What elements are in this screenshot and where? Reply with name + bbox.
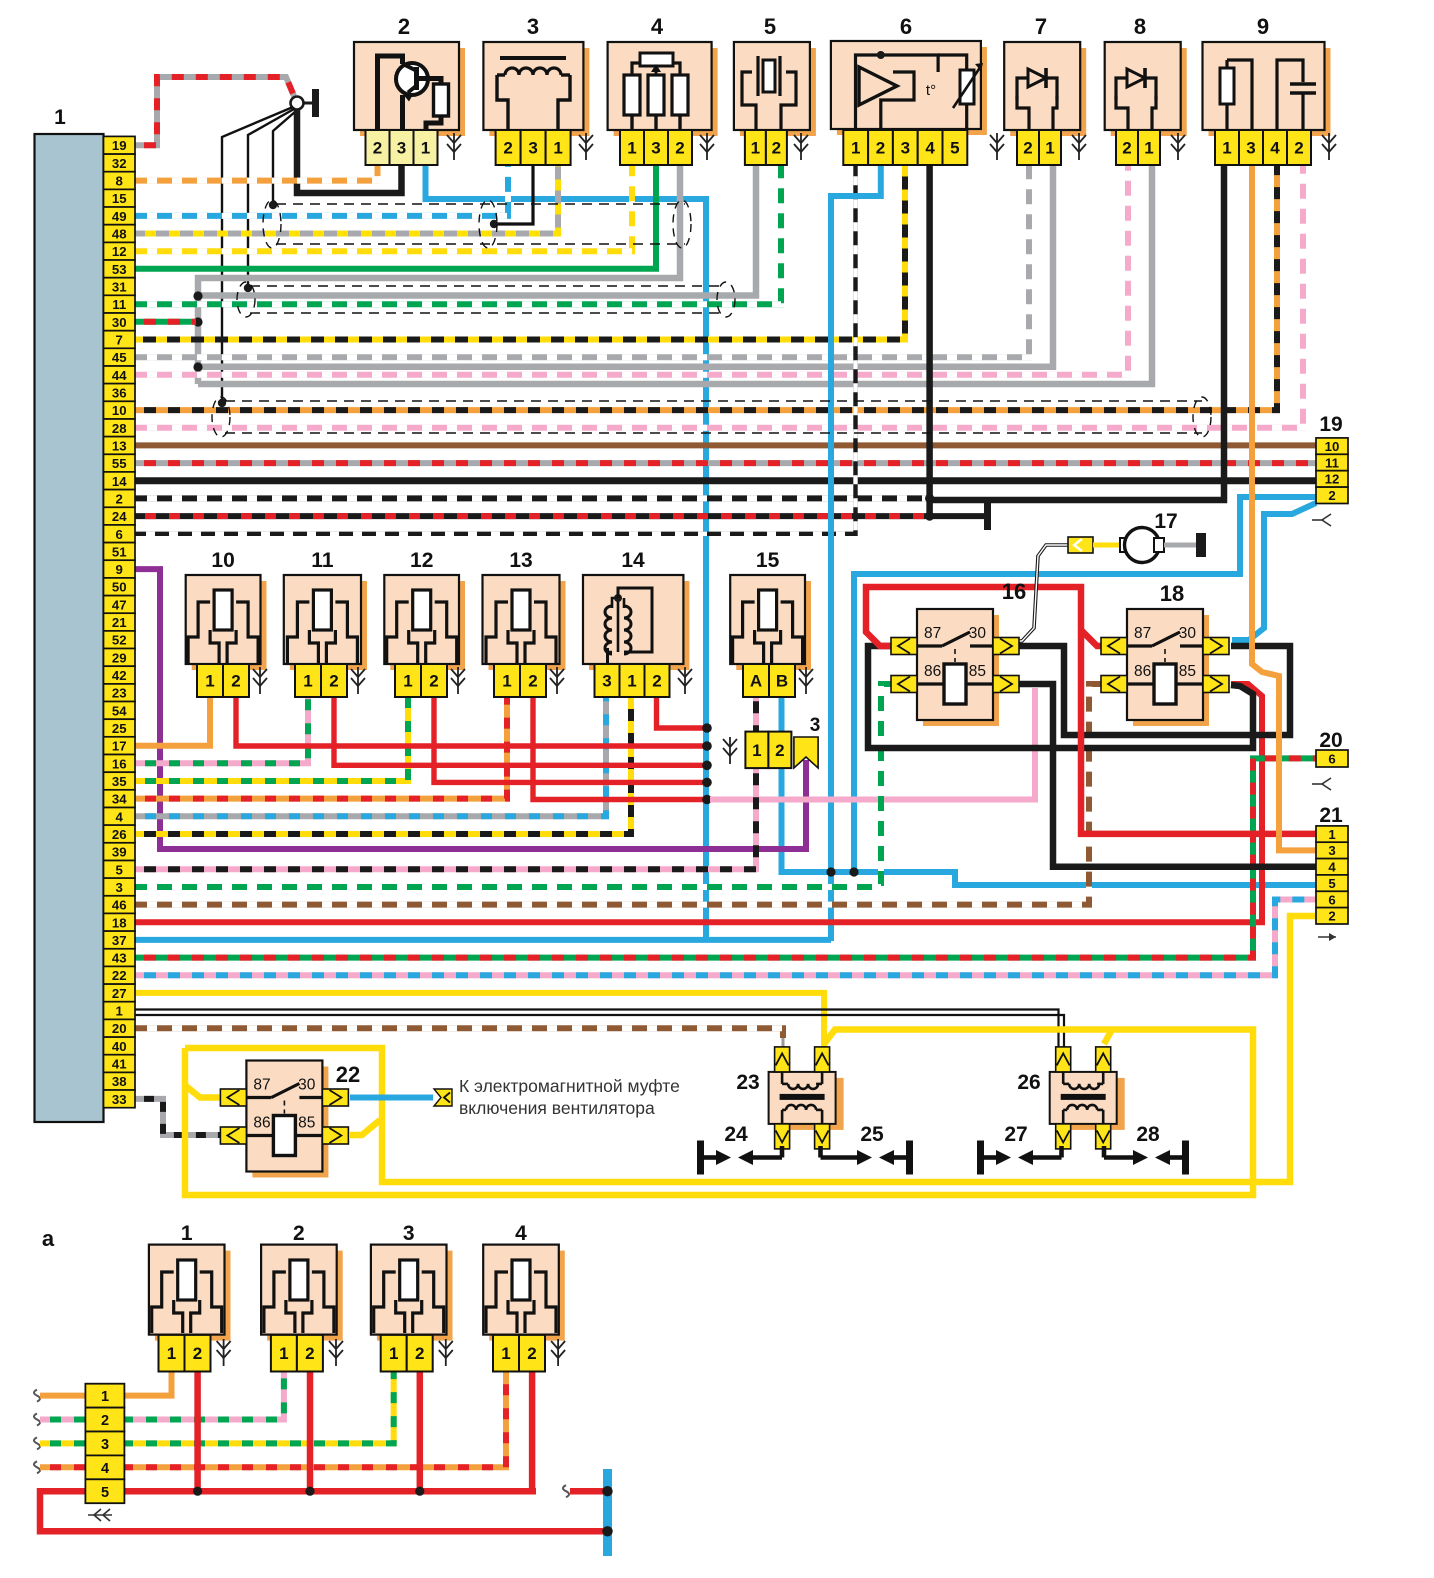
svg-text:44: 44	[112, 368, 127, 383]
label 12	[410, 549, 433, 572]
ground at component 8	[1171, 133, 1185, 160]
component 15 injector	[730, 575, 811, 670]
svg-text:19: 19	[1319, 413, 1342, 436]
ground at component 15	[799, 667, 813, 694]
svg-text:6: 6	[1328, 892, 1335, 907]
svg-text:6: 6	[116, 527, 123, 542]
svg-text:14: 14	[112, 474, 127, 489]
node ignition splice	[291, 89, 320, 117]
svg-text:9: 9	[1257, 14, 1269, 39]
svg-text:4: 4	[116, 809, 124, 824]
label 11	[311, 549, 334, 572]
svg-text:40: 40	[112, 1039, 127, 1054]
wire pin 1 to component 26 (white pair)	[135, 1010, 1064, 1051]
svg-text:6: 6	[1328, 752, 1335, 767]
svg-text:1: 1	[1144, 139, 1153, 158]
svg-text:2: 2	[1122, 139, 1131, 158]
ground at component 2	[447, 133, 461, 160]
svg-text:1: 1	[403, 672, 412, 691]
svg-text:1: 1	[553, 139, 562, 158]
svg-text:12: 12	[410, 549, 433, 572]
svg-text:1: 1	[205, 672, 214, 691]
svg-text:2: 2	[373, 139, 382, 158]
wire component 15 pin B riser (light blue)	[779, 697, 785, 731]
ground at component 14	[678, 667, 692, 694]
node body harness bus (light blue bar)	[602, 1469, 612, 1556]
component 7 immobiliser diode	[1004, 42, 1086, 136]
label 3	[527, 14, 539, 39]
wire shield drain A (thin black)	[218, 107, 293, 407]
svg-text:30: 30	[298, 1077, 316, 1094]
injector 3	[371, 1245, 453, 1341]
wire relay red supply net	[866, 587, 1316, 834]
ground 25	[821, 1123, 914, 1175]
component 2 ignition module	[354, 42, 465, 136]
svg-text:18: 18	[112, 915, 127, 930]
label 10	[211, 549, 234, 572]
component 13 injector	[483, 575, 566, 670]
injector 4 pins 1 2	[493, 1335, 545, 1372]
svg-text:17: 17	[112, 739, 127, 754]
connector 15a pins 1 2	[745, 732, 791, 769]
component 6 instrument module	[831, 41, 987, 135]
svg-text:3: 3	[901, 139, 910, 158]
svg-text:25: 25	[112, 721, 127, 736]
ground at component 5	[794, 133, 808, 160]
svg-text:16: 16	[112, 756, 127, 771]
wire pin 37 (light blue)	[135, 937, 831, 943]
svg-text:20: 20	[112, 1021, 127, 1036]
injector 1 pins 1 2	[159, 1335, 211, 1372]
ground at component 3	[579, 133, 593, 160]
svg-text:15: 15	[112, 191, 127, 206]
component 4 pins 1 3 2	[620, 130, 692, 165]
svg-text:5: 5	[950, 139, 959, 158]
injector 2 pins 1 2	[271, 1335, 323, 1372]
component 11 injector	[284, 575, 367, 670]
ground 28	[1104, 1123, 1189, 1175]
svg-text:4: 4	[1328, 860, 1336, 875]
component 4 throttle position sensor	[608, 42, 718, 136]
component 5 pins 1 2	[745, 130, 787, 165]
label 17	[1154, 510, 1177, 533]
svg-text:3: 3	[528, 139, 537, 158]
svg-text:32: 32	[112, 156, 127, 171]
component 14 pins 3 1 2	[595, 664, 670, 697]
svg-text:2: 2	[876, 139, 885, 158]
svg-text:4: 4	[925, 139, 935, 158]
component 23 ignition coil 1-4	[736, 1047, 843, 1149]
svg-text:87: 87	[1134, 625, 1151, 642]
svg-text:2: 2	[231, 672, 240, 691]
svg-text:6: 6	[900, 14, 912, 39]
svg-text:22: 22	[112, 968, 127, 983]
ECU pin numbers	[104, 136, 136, 1107]
svg-text:3: 3	[1328, 843, 1335, 858]
ground 24	[697, 1123, 782, 1175]
svg-text:30: 30	[969, 625, 987, 642]
label 1	[181, 1222, 193, 1245]
wire injector common supply (red)	[40, 1372, 604, 1531]
wire pin 44 to component 8 pin 2 (pink/white)	[135, 165, 1128, 375]
svg-text:3: 3	[810, 715, 821, 736]
label 7	[1035, 14, 1047, 39]
wire pin 55 to connector 19 pin 11 (gray/red)	[135, 460, 1316, 466]
ground at component 10	[253, 667, 267, 694]
connector 15a pin 3 flag	[794, 715, 820, 768]
svg-text:85: 85	[1179, 663, 1196, 680]
svg-text:14: 14	[621, 549, 645, 572]
svg-text:1: 1	[752, 741, 761, 760]
wire pin 4 to component 14 pin 3 (gray/light blue)	[135, 697, 606, 816]
wire pin 2 (black/white) and link to component 9 pin 1	[135, 165, 1224, 500]
svg-text:30: 30	[1179, 625, 1197, 642]
svg-text:36: 36	[112, 386, 127, 401]
component 2 pins 2 3 1	[366, 130, 438, 165]
svg-text:2: 2	[1328, 909, 1335, 924]
ground at connector 15a	[723, 737, 737, 764]
component 11 pins	[295, 664, 347, 697]
svg-text:29: 29	[112, 650, 127, 665]
svg-text:5: 5	[1328, 876, 1335, 891]
wire fuel connector row 3 to injector 3 (yellow/green)	[34, 1372, 394, 1449]
wire pin 45 to component 7 pin 2 (gray/white)	[135, 165, 1029, 357]
svg-text:3: 3	[116, 880, 123, 895]
wire pin 28 to component 9 pin 2 (pink/white)	[135, 165, 1303, 428]
svg-text:2: 2	[528, 672, 537, 691]
wire pin 18 to relay 18 pin 85 (red)	[135, 684, 1262, 922]
svg-text:21: 21	[1319, 804, 1343, 827]
fuel harness connector	[85, 1384, 124, 1521]
injector 2	[261, 1245, 343, 1341]
svg-text:1: 1	[1328, 827, 1335, 842]
svg-text:10: 10	[112, 403, 127, 418]
component 13 pins	[494, 664, 546, 697]
wire shield drain C (thin black)	[269, 111, 296, 209]
component 8 pins 2 1	[1116, 130, 1160, 165]
svg-text:1: 1	[851, 139, 860, 158]
svg-text:7: 7	[1035, 14, 1047, 39]
wire pin 5 to component 15 pin A (pink/black)	[135, 697, 756, 869]
relay 16 fuel pump relay	[891, 579, 1026, 726]
svg-text:9: 9	[116, 562, 123, 577]
svg-text:К электромагнитной муфте: К электромагнитной муфте	[459, 1076, 680, 1096]
svg-text:3: 3	[651, 139, 660, 158]
wire component 6 pin 2 / pin 37 tach net (light blue)	[831, 165, 881, 941]
connector 19	[1312, 413, 1348, 526]
svg-text:3: 3	[527, 14, 539, 39]
svg-text:25: 25	[860, 1123, 884, 1146]
ground at component 6	[990, 133, 1004, 160]
svg-text:2: 2	[675, 139, 684, 158]
wire pin 22 to connector 21 pin 6 (pink/light blue)	[135, 900, 1316, 976]
svg-text:86: 86	[1134, 663, 1151, 680]
svg-text:52: 52	[112, 633, 127, 648]
wire pin 11 to component 5 pin 2 (green/white)	[135, 165, 781, 304]
svg-text:26: 26	[112, 827, 127, 842]
svg-text:1: 1	[101, 1389, 109, 1405]
svg-text:33: 33	[112, 1092, 127, 1107]
component 5 knock sensor	[734, 42, 816, 136]
svg-text:48: 48	[112, 227, 127, 242]
wire component 3 pin 3 shield tap (black)	[490, 165, 533, 228]
wire pin 16 to component 11 pin 1 (pink/green)	[135, 697, 308, 763]
ground at injector 4	[551, 1339, 565, 1366]
wire pin 30 to gray net (green/red)	[135, 319, 196, 325]
svg-text:включения вентилятора: включения вентилятора	[459, 1098, 655, 1118]
wire gray sensor-ground net	[193, 165, 1152, 384]
svg-text:5: 5	[764, 14, 776, 39]
ground at injector 1	[217, 1339, 231, 1366]
svg-text:51: 51	[112, 544, 127, 559]
injector 3 pins 1 2	[381, 1335, 433, 1372]
svg-text:4: 4	[101, 1461, 109, 1477]
label 13	[509, 549, 532, 572]
svg-text:26: 26	[1017, 1071, 1040, 1094]
svg-text:1: 1	[1045, 139, 1054, 158]
wire pin 43 to connector 20 pin 6 (green/red)	[135, 758, 1316, 957]
shield around wire 11	[237, 282, 735, 317]
svg-text:2: 2	[398, 14, 410, 39]
svg-text:46: 46	[112, 898, 127, 913]
component 12 pins	[395, 664, 447, 697]
svg-text:4: 4	[1270, 139, 1280, 158]
svg-text:23: 23	[112, 686, 127, 701]
ground at component 13	[550, 667, 564, 694]
relay 18 fan relay	[1101, 581, 1229, 726]
svg-text:85: 85	[298, 1115, 315, 1132]
svg-text:39: 39	[112, 845, 127, 860]
wire relay 22 pin 30 to clutch flag (light blue)	[350, 1095, 433, 1101]
svg-text:12: 12	[112, 244, 127, 259]
svg-text:43: 43	[112, 951, 127, 966]
svg-text:47: 47	[112, 597, 127, 612]
wire pin 10 to component 9 pin 4 (orange/black)	[135, 165, 1277, 410]
label 3	[403, 1222, 415, 1245]
component 10 pins	[197, 664, 249, 697]
svg-text:2: 2	[527, 1344, 536, 1363]
svg-text:49: 49	[112, 209, 127, 224]
component 9 RC suppressor	[1203, 42, 1331, 136]
svg-text:28: 28	[1136, 1123, 1160, 1146]
label 6	[900, 14, 912, 39]
svg-text:1: 1	[1222, 139, 1231, 158]
svg-text:1: 1	[751, 139, 760, 158]
wire pin 48 to component 3 pin 1 (gray/yellow)	[135, 165, 558, 234]
component 3 pins 2 3 1	[496, 130, 571, 165]
label 14	[621, 549, 645, 572]
svg-text:1: 1	[502, 672, 511, 691]
svg-text:1: 1	[389, 1344, 398, 1363]
svg-text:3: 3	[101, 1437, 109, 1453]
component 7 pins 2 1	[1017, 130, 1061, 165]
svg-text:85: 85	[969, 663, 986, 680]
wire pin 24 ground stub (black/red)	[135, 503, 991, 530]
wire fuel connector row 2 to injector 2 (pink/green)	[34, 1372, 284, 1426]
wire pin 8 to component 2 pin 2 (orange/white)	[135, 165, 378, 181]
svg-text:21: 21	[112, 615, 127, 630]
svg-text:23: 23	[736, 1071, 759, 1094]
svg-text:1: 1	[279, 1344, 288, 1363]
injector 4	[483, 1245, 565, 1341]
ground at component 11	[351, 667, 365, 694]
svg-text:a: a	[42, 1226, 55, 1251]
label a	[42, 1226, 55, 1251]
svg-text:2: 2	[1328, 488, 1335, 503]
svg-text:41: 41	[112, 1057, 127, 1072]
svg-text:7: 7	[116, 333, 123, 348]
svg-text:1: 1	[116, 1004, 123, 1019]
wire fuel connector row 1 to injector 1 (orange)	[34, 1372, 172, 1402]
wire component 17 to relay 16 pin 30 (white thin)	[1016, 545, 1068, 641]
label 9	[1257, 14, 1269, 39]
svg-text:2: 2	[772, 139, 781, 158]
svg-text:54: 54	[112, 703, 127, 718]
wire relay black mains net	[868, 646, 1316, 867]
svg-text:1: 1	[627, 672, 636, 691]
wire pin 14 to connector 19 pin 12 (black)	[135, 477, 1316, 484]
svg-text:87: 87	[253, 1077, 270, 1094]
svg-text:53: 53	[112, 262, 127, 277]
svg-text:10: 10	[1325, 439, 1340, 454]
svg-text:10: 10	[211, 549, 234, 572]
svg-text:5: 5	[101, 1485, 109, 1501]
component 9 pins 1 3 4 2	[1215, 130, 1311, 165]
svg-text:3: 3	[1246, 139, 1255, 158]
component 17 diagnostic pump	[1068, 528, 1206, 563]
svg-text:22: 22	[336, 1062, 360, 1087]
svg-text:1: 1	[501, 1344, 510, 1363]
component 6 pins 1-5	[843, 130, 967, 165]
wire pin 27 to component 23 feed (yellow)	[135, 993, 824, 1047]
svg-text:5: 5	[116, 862, 123, 877]
svg-text:2: 2	[429, 672, 438, 691]
wire pin 3 to relay 16 pin 86 (green/white)	[135, 684, 891, 887]
ECU controller block 1	[35, 106, 104, 1122]
svg-text:2: 2	[415, 1344, 424, 1363]
ground at injector 3	[439, 1339, 453, 1366]
wire pin 35 to component 12 pin 1 (yellow/green)	[135, 697, 408, 781]
component 10 injector	[186, 575, 267, 670]
svg-text:20: 20	[1319, 729, 1342, 752]
label 2	[293, 1222, 305, 1245]
svg-text:2: 2	[329, 672, 338, 691]
label 2	[398, 14, 410, 39]
svg-text:35: 35	[112, 774, 127, 789]
wire pin 12 to component 4 pin 1 (yellow/white)	[135, 165, 632, 251]
connector 21	[1316, 804, 1348, 941]
svg-text:86: 86	[924, 663, 941, 680]
wire pin 53 to component 4 pin 3 (green)	[135, 165, 656, 269]
shield around wires 49/48	[263, 200, 691, 248]
svg-text:3: 3	[397, 139, 406, 158]
svg-text:11: 11	[112, 297, 126, 312]
svg-text:42: 42	[112, 668, 127, 683]
svg-text:11: 11	[311, 549, 334, 572]
component 14 idle air valve	[583, 575, 689, 670]
ground at component 4	[700, 133, 714, 160]
connector 20	[1312, 729, 1348, 790]
svg-text:2: 2	[116, 491, 123, 506]
text to electromagnetic clutch	[459, 1076, 680, 1118]
svg-text:2: 2	[193, 1344, 202, 1363]
svg-text:24: 24	[724, 1123, 748, 1146]
svg-text:17: 17	[1154, 510, 1177, 533]
ground at component 12	[451, 667, 465, 694]
svg-text:8: 8	[116, 174, 123, 189]
svg-text:2: 2	[775, 741, 784, 760]
label 15	[756, 549, 780, 572]
component 8 diagnostic diode	[1105, 42, 1187, 136]
svg-text:1: 1	[181, 1222, 193, 1245]
svg-text:11: 11	[1325, 455, 1339, 470]
ground at component 9	[1322, 133, 1336, 160]
wire pin 20 to component 23 (brown/white)	[135, 1028, 783, 1047]
svg-text:50: 50	[112, 580, 127, 595]
component 12 injector	[384, 575, 465, 670]
svg-text:27: 27	[1004, 1123, 1027, 1146]
wire light blue bus to connectors (light blue)	[782, 497, 1317, 885]
svg-text:1: 1	[627, 139, 636, 158]
svg-text:8: 8	[1134, 14, 1146, 39]
svg-text:1: 1	[303, 672, 312, 691]
label 4	[515, 1222, 527, 1245]
svg-text:2: 2	[503, 139, 512, 158]
svg-text:A: A	[750, 672, 762, 691]
svg-text:13: 13	[509, 549, 532, 572]
wire pin 19 to ignition node (gray/red)	[135, 77, 294, 145]
svg-text:1: 1	[167, 1344, 176, 1363]
wire pin 9 to connector 15 pin 3 (purple)	[135, 569, 806, 849]
svg-text:t°: t°	[926, 82, 936, 99]
wire pin 7 to component 6 pin 3 (yellow/black)	[135, 165, 905, 340]
component 26 ignition coil 2-3	[1017, 1047, 1124, 1149]
wire component 2 pin 1 to pin 37 net (light blue)	[426, 165, 707, 941]
ground at injector 2	[329, 1339, 343, 1366]
svg-text:28: 28	[112, 421, 127, 436]
svg-text:2: 2	[293, 1222, 305, 1245]
wire pin 13 to connector 19 pin 10 (brown)	[135, 442, 1316, 448]
svg-text:13: 13	[112, 438, 127, 453]
svg-text:45: 45	[112, 350, 127, 365]
label 8	[1134, 14, 1146, 39]
svg-text:34: 34	[112, 792, 127, 807]
wire pin 49 to component 3 pin 2 (light blue/white)	[135, 165, 508, 216]
svg-text:18: 18	[1160, 581, 1184, 606]
wire pin 26 to component 14 pin 1 (yellow/black)	[135, 697, 631, 834]
ground 27	[977, 1123, 1062, 1175]
svg-text:15: 15	[756, 549, 780, 572]
wire component 6 pin 4 battery net (black)	[925, 165, 934, 521]
wire pin 46 to relay 18 pin 86 (brown/white)	[135, 684, 1101, 905]
svg-text:3: 3	[602, 672, 611, 691]
component 15 pins	[743, 664, 795, 697]
svg-text:30: 30	[112, 315, 127, 330]
wire relay 16 pin 85 to injector bus (pink)	[710, 688, 1035, 800]
svg-text:2: 2	[652, 672, 661, 691]
flag to clutch (yellow)	[434, 1089, 452, 1106]
wire injector supply bus (red)	[236, 697, 712, 804]
svg-text:B: B	[776, 672, 788, 691]
svg-text:2: 2	[1023, 139, 1032, 158]
ground at component 7	[1072, 133, 1086, 160]
wire shield drain B (thin black)	[244, 109, 294, 292]
svg-text:4: 4	[515, 1222, 527, 1245]
wire component 9 pin 3 to connector 21 pin 3 (orange)	[1252, 165, 1316, 850]
wire pin 6 to component 6 pin 1 (black/white thin)	[135, 165, 856, 534]
svg-text:55: 55	[112, 456, 127, 471]
injector 1	[149, 1245, 231, 1341]
